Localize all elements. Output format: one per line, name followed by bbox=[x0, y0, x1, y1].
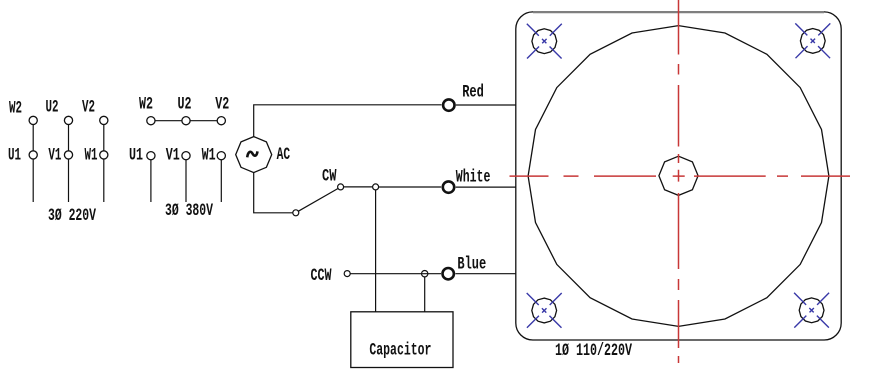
wire V1 lead bbox=[185, 160, 187, 202]
svg-text:V1: V1 bbox=[166, 146, 180, 166]
svg-text:CW: CW bbox=[322, 167, 337, 187]
svg-text:W1: W1 bbox=[202, 146, 216, 166]
terminal U1 (3-phase 220V group, column 1 bottom) bbox=[29, 151, 37, 159]
svg-text:Red: Red bbox=[462, 83, 484, 103]
wire White terminal to motor bbox=[456, 186, 516, 188]
wire Blue terminal to motor bbox=[455, 273, 516, 275]
wire V1 lead bbox=[68, 159, 70, 202]
wire star bridge W2-U2 bbox=[155, 120, 182, 122]
terminal W2 (3-phase 380V group, column 1 top) bbox=[147, 117, 155, 125]
AC source U1 octagon body bbox=[236, 137, 272, 173]
wire capacitor left leg bbox=[375, 190, 377, 312]
svg-text:U1: U1 bbox=[8, 146, 21, 166]
switch pole node bbox=[293, 210, 299, 216]
svg-text:W2: W2 bbox=[139, 95, 153, 115]
wire V2-W1 link bbox=[103, 125, 105, 151]
wire W1 lead bbox=[220, 160, 222, 202]
motor frame top edge (gray) bbox=[533, 11, 824, 13]
mounting hole bottom-left bbox=[532, 298, 557, 323]
wire AC bottom to switch pole bbox=[254, 173, 293, 213]
AC source sine symbol bbox=[247, 151, 257, 157]
vertical centerline (red dash-dot) bbox=[678, 0, 680, 363]
wire junction to White terminal bbox=[379, 186, 442, 188]
mounting hole bottom-right cross mark (blue) bbox=[794, 293, 829, 328]
mounting hole bottom-right bbox=[799, 298, 824, 323]
terminal W1 (3-phase 220V group, column 3 bottom) bbox=[100, 151, 108, 159]
wire capacitor right leg bbox=[424, 277, 426, 312]
terminal V2 (3-phase 220V group, column 3 top) bbox=[100, 116, 108, 124]
switch blade bbox=[298, 188, 338, 211]
terminal U1 (3-phase 380V group, column 1 bottom) bbox=[147, 152, 155, 160]
svg-text:W2: W2 bbox=[9, 99, 22, 119]
wire W2-U1 link bbox=[32, 125, 34, 151]
wire CCW to Blue terminal bbox=[350, 273, 441, 275]
terminal V1 (3-phase 220V group, column 2 bottom) bbox=[64, 151, 72, 159]
switch contact CW bbox=[338, 184, 344, 190]
terminal W2 (3-phase 220V group, column 1 top) bbox=[29, 116, 37, 124]
svg-text:White: White bbox=[456, 168, 491, 188]
wire CW contact to junction bbox=[344, 186, 373, 188]
svg-text:U2: U2 bbox=[46, 98, 59, 118]
motor shaft octagon bbox=[659, 156, 698, 195]
svg-text:CCW: CCW bbox=[311, 266, 332, 286]
terminal U2 (3-phase 220V group, column 2 top) bbox=[64, 116, 72, 124]
wire AC top riser bbox=[254, 105, 442, 137]
svg-text:Capacitor: Capacitor bbox=[369, 341, 431, 361]
svg-text:V2: V2 bbox=[82, 98, 95, 118]
terminal W1 (3-phase 380V group, column 3 bottom) bbox=[217, 152, 225, 160]
switch contact CCW bbox=[344, 271, 350, 277]
mounting hole top-right bbox=[800, 29, 825, 54]
mounting hole bottom-left cross mark (blue) bbox=[527, 293, 562, 328]
svg-text:V2: V2 bbox=[215, 95, 229, 115]
svg-text:V1: V1 bbox=[48, 146, 61, 166]
wire U1 lead bbox=[150, 160, 152, 202]
svg-text:U1: U1 bbox=[129, 146, 143, 166]
svg-text:1Ø 110/220V: 1Ø 110/220V bbox=[555, 341, 632, 361]
svg-text:3Ø 220V: 3Ø 220V bbox=[48, 206, 96, 226]
terminal V2 (3-phase 380V group, column 3 top) bbox=[217, 117, 225, 125]
terminal V1 (3-phase 380V group, column 2 bottom) bbox=[182, 152, 190, 160]
motor stator circle (20-gon) bbox=[528, 26, 829, 327]
terminal Red (motor lead) bbox=[443, 99, 454, 110]
terminal Blue (motor lead) bbox=[443, 268, 454, 279]
wire Red terminal to motor bbox=[456, 104, 516, 106]
svg-text:AC: AC bbox=[277, 145, 291, 165]
mounting hole top-right cross mark (blue) bbox=[795, 23, 830, 58]
svg-text:U2: U2 bbox=[178, 95, 192, 115]
wire W1 lead bbox=[103, 159, 105, 202]
svg-text:Blue: Blue bbox=[457, 255, 486, 275]
wire U2-V1 link bbox=[68, 125, 70, 151]
motor M1 frame bbox=[516, 12, 841, 340]
mounting hole top-left bbox=[532, 29, 557, 54]
wire U1 lead bbox=[32, 159, 34, 202]
node junction CCW/capacitor bbox=[422, 271, 428, 277]
horizontal centerline (red dash-dot) bbox=[510, 175, 851, 177]
capacitor C1 box bbox=[351, 312, 453, 368]
terminal White (motor lead) bbox=[443, 181, 454, 192]
wire star bridge U2-V2 bbox=[190, 120, 217, 122]
mounting hole top-left cross mark (blue) bbox=[527, 24, 562, 59]
svg-text:3Ø 380V: 3Ø 380V bbox=[165, 201, 213, 221]
svg-text:W1: W1 bbox=[85, 146, 98, 166]
node junction CW/capacitor bbox=[373, 184, 379, 190]
terminal U2 (3-phase 380V group, column 2 top) bbox=[182, 117, 190, 125]
